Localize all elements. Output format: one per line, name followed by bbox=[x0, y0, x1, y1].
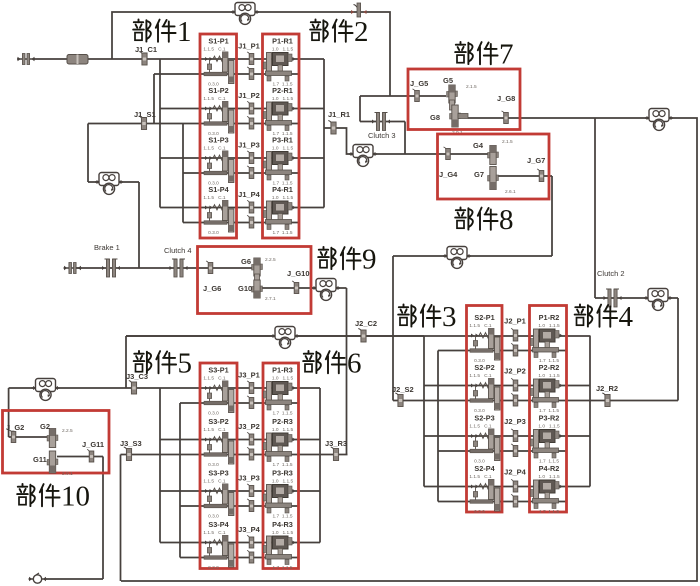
svg-text:J1_P2: J1_P2 bbox=[238, 91, 260, 100]
svg-text:G7: G7 bbox=[474, 170, 484, 179]
svg-text:P2-R2: P2-R2 bbox=[539, 363, 560, 372]
joint J1_P3 lower connector bbox=[247, 166, 254, 179]
svg-text:1.0 1.1.5: 1.0 1.1.5 bbox=[272, 96, 294, 102]
red frame component 1 (sun-planet column S1) bbox=[200, 34, 237, 238]
joint J2_P3 lower connector bbox=[511, 444, 518, 457]
svg-text:1.0 1.1.5: 1.0 1.1.5 bbox=[538, 323, 560, 329]
svg-text:Clutch 4: Clutch 4 bbox=[164, 246, 192, 255]
ring cluster P3-R2 bbox=[531, 414, 563, 465]
rotary spring-damper RSD9 (carrier3) bbox=[32, 379, 60, 401]
joint J3_P4 upper connector bbox=[247, 536, 254, 549]
wire block5 sun bus bbox=[180, 403, 299, 558]
label component 3 bbox=[398, 301, 456, 333]
ring cluster P4-R1 bbox=[264, 185, 296, 236]
svg-text:J3_P3: J3_P3 bbox=[238, 474, 260, 483]
svg-text:J3_P4: J3_P4 bbox=[238, 525, 261, 534]
svg-text:1.0 1.1.5: 1.0 1.1.5 bbox=[272, 427, 294, 433]
joint J1_P4 lower connector bbox=[247, 216, 254, 229]
torque sensor on top wire bbox=[351, 3, 367, 17]
svg-text:J_G11: J_G11 bbox=[82, 440, 104, 449]
svg-text:S1-P1: S1-P1 bbox=[208, 37, 228, 46]
wire J1_R1 to damper to gear G4 bbox=[324, 122, 489, 155]
svg-text:5: 5 bbox=[178, 348, 193, 380]
label component 9 bbox=[318, 244, 376, 276]
ring cluster P2-R2 bbox=[531, 363, 563, 414]
wire block1 carrier bus bbox=[160, 59, 324, 208]
svg-text:G4: G4 bbox=[473, 141, 484, 150]
red frame component 4 (planet-ring column R2) bbox=[530, 306, 567, 513]
wire input shaft to planetary 1 sun row (main input, row1 top) bbox=[33, 58, 324, 60]
svg-text:J1_P1: J1_P1 bbox=[238, 42, 260, 51]
svg-text:Clutch 3: Clutch 3 bbox=[368, 131, 396, 140]
joint J_G7 bbox=[537, 169, 544, 182]
wire sun2 ring2 row J2_S2 to J2_R2 bbox=[393, 400, 678, 402]
svg-text:G11: G11 bbox=[33, 455, 47, 464]
planet cluster S1-P4 bbox=[203, 185, 233, 236]
clutch Clutch 3 bbox=[368, 113, 396, 141]
svg-text:S1-P4: S1-P4 bbox=[208, 185, 229, 194]
wire brake1 clutch4 shaft to gear G6 bbox=[75, 267, 254, 269]
svg-text:J1_C1: J1_C1 bbox=[135, 45, 157, 54]
rotary spring-damper RSD2 (sun1) bbox=[95, 173, 123, 195]
joint J3_P1 lower connector bbox=[247, 396, 254, 409]
rotary spring-damper RSD6 (G10 output) bbox=[312, 279, 340, 301]
ring cluster P4-R2 bbox=[531, 464, 563, 515]
ring cluster P2-R1 bbox=[264, 86, 296, 137]
svg-text:J_G2: J_G2 bbox=[6, 423, 24, 432]
rotary spring-damper RSD5 (clutch2) bbox=[644, 289, 672, 311]
svg-text:Brake 1: Brake 1 bbox=[94, 243, 120, 252]
svg-text:S2-P2: S2-P2 bbox=[474, 363, 494, 372]
ring cluster P4-R3 bbox=[264, 520, 296, 571]
label component 4 bbox=[575, 301, 634, 333]
svg-text:P3-R1: P3-R1 bbox=[272, 136, 293, 145]
red frame component 6 (planet-ring column R3) bbox=[263, 363, 299, 569]
joint J1_P3 upper connector bbox=[247, 151, 254, 164]
wire gear G7 output down to sun2 damper bbox=[393, 176, 552, 401]
svg-text:1.0 1.1.5: 1.0 1.1.5 bbox=[272, 376, 294, 382]
svg-text:P3-R2: P3-R2 bbox=[539, 414, 560, 423]
svg-text:7: 7 bbox=[499, 39, 514, 71]
wire block6 ring bus bbox=[319, 388, 321, 543]
node J3_C3 bbox=[129, 381, 137, 395]
svg-text:P4-R1: P4-R1 bbox=[272, 185, 293, 194]
gear G6 bbox=[252, 258, 263, 276]
label component 10 bbox=[17, 481, 90, 513]
brake Brake 1 bbox=[94, 243, 120, 277]
joint J_G4 bbox=[444, 147, 451, 160]
wire clutch2 feed vertical bbox=[594, 118, 596, 298]
joint J3_P3 lower connector bbox=[247, 499, 254, 512]
svg-text:S2-P3: S2-P3 bbox=[474, 414, 494, 423]
gear G11 bbox=[47, 451, 58, 473]
wire block5 carrier bus bbox=[160, 388, 320, 543]
joint J_G10 bbox=[292, 281, 299, 294]
svg-text:G8: G8 bbox=[430, 113, 440, 122]
wire clutch3 horizontal bbox=[360, 121, 405, 123]
red frame component 2 (planet-ring column R1) bbox=[263, 34, 300, 238]
svg-text:0.3.0: 0.3.0 bbox=[208, 230, 219, 236]
clutch Clutch 4 bbox=[164, 246, 192, 277]
node J3_S3 bbox=[124, 447, 132, 461]
svg-text:P1-R1: P1-R1 bbox=[272, 37, 293, 46]
red frame component 7 bbox=[408, 69, 520, 130]
joint J3_P3 upper connector bbox=[247, 484, 254, 497]
input source shaft bbox=[17, 54, 35, 65]
svg-text:2.1.5: 2.1.5 bbox=[466, 84, 477, 90]
red frame component 10 bbox=[3, 411, 110, 474]
svg-text:2.2.5: 2.2.5 bbox=[62, 428, 73, 434]
shaft G6-G10 bbox=[255, 274, 260, 282]
svg-text:J_G5: J_G5 bbox=[410, 79, 428, 88]
wire J1_S1 row2 bottom bbox=[88, 124, 299, 183]
svg-text:0.3.0: 0.3.0 bbox=[208, 462, 219, 468]
node J1_S1 bbox=[139, 116, 147, 130]
svg-text:1.7 1.1.5: 1.7 1.1.5 bbox=[539, 509, 559, 515]
red frame component 5 (sun-planet column S3) bbox=[200, 363, 237, 569]
svg-text:1.7 1.1.5: 1.7 1.1.5 bbox=[272, 565, 292, 571]
svg-text:1.7 1.1.5: 1.7 1.1.5 bbox=[272, 230, 292, 236]
joint J_G8 bbox=[502, 111, 509, 124]
planet cluster S1-P1 bbox=[203, 37, 233, 88]
svg-text:3: 3 bbox=[442, 301, 457, 333]
planet cluster S2-P2 bbox=[469, 363, 499, 414]
svg-text:J_G6: J_G6 bbox=[203, 284, 221, 293]
svg-text:2.6.1: 2.6.1 bbox=[505, 189, 516, 195]
node J2_S2 bbox=[395, 393, 403, 407]
rotary spring-damper RSD1 (top) bbox=[231, 3, 259, 25]
svg-text:1.0 1.1.5: 1.0 1.1.5 bbox=[272, 479, 294, 485]
svg-text:10: 10 bbox=[61, 481, 90, 513]
svg-text:J2_C2: J2_C2 bbox=[355, 319, 377, 328]
svg-text:0.3.0: 0.3.0 bbox=[208, 565, 219, 571]
svg-text:Clutch 2: Clutch 2 bbox=[597, 269, 625, 278]
joint J_G6 bbox=[206, 261, 213, 274]
svg-text:1.0 1.1.5: 1.0 1.1.5 bbox=[538, 424, 560, 430]
svg-text:0.3.0: 0.3.0 bbox=[474, 509, 485, 515]
red frame component 9 bbox=[198, 247, 312, 314]
svg-text:J2_S2: J2_S2 bbox=[392, 385, 414, 394]
wire top loop from node J1_C1 up over to gear G5 line bbox=[112, 12, 390, 96]
joint J3_P4 lower connector bbox=[247, 551, 254, 564]
ring cluster P2-R3 bbox=[264, 417, 296, 468]
svg-text:J_G8: J_G8 bbox=[497, 94, 515, 103]
svg-text:2.1.5: 2.1.5 bbox=[502, 139, 513, 145]
svg-text:S1-P2: S1-P2 bbox=[208, 86, 228, 95]
svg-text:S2-P1: S2-P1 bbox=[474, 313, 494, 322]
wire box10 J_G2 feed bbox=[9, 436, 50, 438]
svg-text:1.7 1.1.5: 1.7 1.1.5 bbox=[272, 514, 292, 520]
planet cluster S2-P1 bbox=[469, 313, 499, 364]
shaft G5-G8 bbox=[450, 100, 455, 110]
svg-text:J2_P1: J2_P1 bbox=[504, 317, 526, 326]
wire gear G11 to output bbox=[44, 457, 103, 580]
gear G4 bbox=[488, 146, 499, 165]
svg-text:1.0 1.1.5: 1.0 1.1.5 bbox=[272, 195, 294, 201]
ring cluster P3-R3 bbox=[264, 469, 296, 520]
joint J_G11 bbox=[87, 450, 94, 463]
wire block3 bottoms bus bbox=[438, 351, 567, 502]
gear G10 bbox=[252, 280, 263, 298]
planet cluster S3-P2 bbox=[203, 417, 233, 468]
wire clutch2 to damper to ring2 bbox=[595, 298, 678, 401]
svg-text:S1-P3: S1-P3 bbox=[208, 136, 228, 145]
label component 2 bbox=[310, 16, 368, 48]
svg-text:0.3.0: 0.3.0 bbox=[208, 411, 219, 417]
svg-text:P2-R1: P2-R1 bbox=[272, 86, 293, 95]
joint J1_P1 lower connector bbox=[247, 67, 254, 80]
wire carrier3 row1 top J3_C3 bbox=[9, 388, 320, 437]
joint J2_P4 lower connector bbox=[511, 495, 518, 508]
svg-text:2: 2 bbox=[354, 16, 369, 48]
node J2_C2 bbox=[358, 329, 366, 343]
rotary spring-damper RSD4 (G8 output) bbox=[645, 109, 673, 131]
svg-text:J2_P3: J2_P3 bbox=[504, 417, 526, 426]
wire sun1 to damper to brake shaft bbox=[88, 182, 139, 268]
svg-text:J2_P2: J2_P2 bbox=[504, 367, 526, 376]
label component 6 bbox=[303, 348, 361, 380]
svg-text:J1_S1: J1_S1 bbox=[134, 110, 156, 119]
joint J_G5 bbox=[413, 89, 420, 102]
joint J_G2 bbox=[9, 430, 16, 443]
svg-text:G5: G5 bbox=[443, 76, 453, 85]
joint J2_P2 upper connector bbox=[511, 379, 518, 392]
coupler on input shaft bbox=[67, 55, 88, 65]
joint J1_P2 upper connector bbox=[247, 102, 254, 115]
svg-text:J2_R2: J2_R2 bbox=[596, 384, 618, 393]
joint J1_P4 upper connector bbox=[247, 201, 254, 214]
svg-text:P1-R2: P1-R2 bbox=[539, 313, 560, 322]
svg-text:P4-R2: P4-R2 bbox=[539, 464, 560, 473]
joint J2_P4 upper connector bbox=[511, 480, 518, 493]
label component 7 bbox=[455, 39, 513, 71]
svg-text:J3_P2: J3_P2 bbox=[238, 422, 260, 431]
joint J3_P1 upper connector bbox=[247, 381, 254, 394]
svg-text:J2_P4: J2_P4 bbox=[504, 468, 527, 477]
svg-text:J3_P1: J3_P1 bbox=[238, 371, 260, 380]
svg-text:2.0.1: 2.0.1 bbox=[62, 471, 73, 477]
svg-text:J1_P3: J1_P3 bbox=[238, 141, 260, 150]
svg-text:P2-R3: P2-R3 bbox=[272, 417, 293, 426]
joint J2_P2 lower connector bbox=[511, 394, 518, 407]
svg-text:0.3.0: 0.3.0 bbox=[208, 514, 219, 520]
svg-text:J3_C3: J3_C3 bbox=[126, 372, 148, 381]
wire block4 ring bus bbox=[589, 336, 591, 487]
wire carrier2 J2_C2 line bbox=[126, 336, 424, 388]
label component 5 bbox=[134, 348, 192, 380]
svg-text:J3_R3: J3_R3 bbox=[325, 439, 347, 448]
svg-text:S3-P2: S3-P2 bbox=[208, 417, 228, 426]
svg-text:G10: G10 bbox=[238, 284, 252, 293]
node J1_C1 bbox=[139, 52, 147, 66]
joint J1_P2 lower connector bbox=[247, 117, 254, 130]
joint J2_P1 lower connector bbox=[511, 344, 518, 357]
shaft end bearing (brake shaft) bbox=[64, 263, 82, 274]
clutch Clutch 2 bbox=[597, 269, 625, 307]
wire gear G5 feed bbox=[360, 95, 446, 97]
svg-text:G2: G2 bbox=[40, 422, 50, 431]
svg-text:1.0 1.1.5: 1.0 1.1.5 bbox=[272, 146, 294, 152]
svg-text:S3-P1: S3-P1 bbox=[208, 366, 228, 375]
wire block2 ring bus bbox=[323, 59, 325, 208]
wire clutch3 branch vertical bbox=[359, 96, 361, 122]
svg-text:J3_S3: J3_S3 bbox=[120, 439, 142, 448]
svg-text:J1_R1: J1_R1 bbox=[328, 110, 350, 119]
svg-text:9: 9 bbox=[362, 244, 377, 276]
red frame component 3 (sun-planet column S2) bbox=[467, 306, 503, 513]
joint J2_P3 upper connector bbox=[511, 429, 518, 442]
svg-text:P1-R3: P1-R3 bbox=[272, 366, 293, 375]
svg-text:J_G10: J_G10 bbox=[287, 269, 310, 278]
gear G8 hub bbox=[458, 114, 468, 119]
svg-text:1.0 1.1.5: 1.0 1.1.5 bbox=[538, 474, 560, 480]
planet cluster S1-P2 bbox=[203, 86, 233, 137]
node J1_R1 bbox=[328, 121, 336, 135]
planet cluster S3-P4 bbox=[203, 520, 233, 571]
svg-text:S2-P4: S2-P4 bbox=[474, 464, 495, 473]
svg-text:4: 4 bbox=[619, 301, 634, 333]
svg-text:1.0 1.1.5: 1.0 1.1.5 bbox=[272, 530, 294, 536]
wire gear G10 output to ring3 drop bbox=[261, 288, 347, 455]
svg-text:1: 1 bbox=[177, 16, 192, 48]
label component 1 bbox=[133, 16, 191, 48]
red frame component 8 bbox=[438, 134, 550, 199]
planet cluster S1-P3 bbox=[203, 136, 233, 187]
svg-text:J_G4: J_G4 bbox=[439, 170, 458, 179]
svg-text:1.7 1.1.5: 1.7 1.1.5 bbox=[272, 411, 292, 417]
svg-text:6: 6 bbox=[347, 348, 362, 380]
rotary spring-damper RSD8 (sun2 from G7) bbox=[443, 247, 471, 269]
svg-text:1.0 1.1.5: 1.0 1.1.5 bbox=[272, 47, 294, 53]
svg-text:S3-P3: S3-P3 bbox=[208, 469, 228, 478]
joint J3_P2 lower connector bbox=[247, 448, 254, 461]
svg-text:J1_P4: J1_P4 bbox=[238, 190, 261, 199]
svg-text:1.0 1.1.5: 1.0 1.1.5 bbox=[538, 373, 560, 379]
joint J1_P1 upper connector bbox=[247, 52, 254, 65]
joint J2_P1 upper connector bbox=[511, 329, 518, 342]
svg-text:1.7 1.1.5: 1.7 1.1.5 bbox=[272, 462, 292, 468]
node J2_R2 bbox=[602, 393, 610, 407]
planet cluster S2-P3 bbox=[469, 414, 499, 465]
svg-text:S3-P4: S3-P4 bbox=[208, 520, 229, 529]
label component 8 bbox=[455, 204, 513, 236]
ring cluster P1-R2 bbox=[531, 313, 563, 364]
wire gear G8 output to right rail and bottom rail bbox=[121, 118, 697, 581]
wire block3 row1 top bbox=[126, 335, 590, 337]
output node (load) bbox=[29, 573, 47, 583]
svg-text:2.2.5: 2.2.5 bbox=[265, 257, 276, 263]
wire block1 row1 bottom bbox=[154, 74, 299, 124]
ring cluster P1-R1 bbox=[264, 37, 296, 88]
wire block1 sun bus rows 3-4 bbox=[183, 124, 299, 223]
gear G5 bbox=[447, 85, 458, 103]
wire J3_S3 J3_R3 row2 bottom bbox=[121, 454, 348, 456]
gear G7 bbox=[488, 167, 499, 190]
wire bottom tap to rail bbox=[120, 455, 122, 582]
wire block3 carrier bus bbox=[424, 336, 590, 487]
svg-text:P3-R3: P3-R3 bbox=[272, 469, 293, 478]
ring cluster P3-R1 bbox=[264, 136, 296, 187]
svg-text:J_G7: J_G7 bbox=[527, 156, 545, 165]
rotary spring-damper RSD7 (carrier2) bbox=[271, 327, 299, 349]
planet cluster S2-P4 bbox=[469, 464, 499, 515]
ring cluster P1-R3 bbox=[264, 366, 296, 417]
gear G8 bbox=[450, 105, 461, 127]
svg-text:G6: G6 bbox=[241, 257, 251, 266]
rotary spring-damper RSD3 (ring1) bbox=[349, 145, 377, 167]
svg-text:P4-R3: P4-R3 bbox=[272, 520, 293, 529]
node J3_R3 bbox=[331, 447, 339, 461]
svg-text:8: 8 bbox=[499, 204, 514, 236]
gear G2 bbox=[47, 429, 58, 448]
planet cluster S3-P3 bbox=[203, 469, 233, 520]
planet cluster S3-P1 bbox=[203, 366, 233, 417]
svg-text:2.7.1: 2.7.1 bbox=[265, 296, 276, 302]
joint J3_P2 upper connector bbox=[247, 433, 254, 446]
